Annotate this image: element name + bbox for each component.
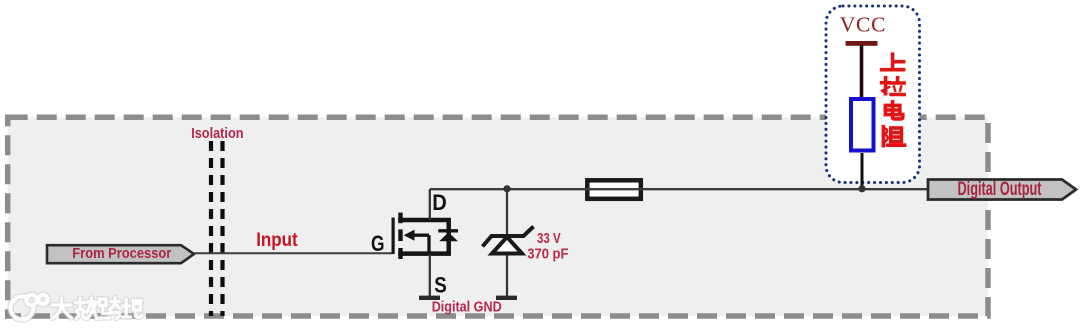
- pin label S: [434, 272, 447, 297]
- ground source: [419, 296, 440, 300]
- label Digital GND: [432, 298, 502, 315]
- svg-text:33 V: 33 V: [537, 231, 561, 247]
- label Isolation: [191, 125, 243, 142]
- svg-text:From Processor: From Processor: [72, 245, 171, 262]
- isolation barrier dashed line left: [209, 141, 213, 316]
- watermark text (大数跨境): [52, 298, 142, 319]
- label VCC: [840, 13, 887, 37]
- label Input: [256, 230, 298, 251]
- 上: [882, 54, 904, 69]
- wire zener branch: [506, 189, 508, 297]
- svg-text:Isolation: Isolation: [191, 125, 243, 142]
- pin label G: [371, 231, 385, 256]
- isolation barrier dashed line right: [220, 141, 224, 316]
- svg-text:370 pF: 370 pF: [527, 247, 568, 263]
- svg-text:D: D: [432, 190, 447, 215]
- svg-text:Input: Input: [256, 230, 298, 251]
- 阻: [883, 127, 904, 146]
- From Processor arrow tag: [47, 245, 194, 263]
- wire processor to gate: [194, 252, 393, 254]
- 电: [885, 102, 902, 119]
- wire VCC bar to resistor: [860, 45, 864, 98]
- node junction pull-up: [858, 185, 865, 192]
- body diode: [438, 229, 458, 232]
- label 33 V: [537, 231, 561, 247]
- main dashed enclosure box: [8, 117, 988, 316]
- fuse F1: [585, 180, 643, 199]
- svg-text:Digital GND: Digital GND: [432, 298, 502, 315]
- svg-text:G: G: [371, 231, 385, 256]
- svg-text:VCC: VCC: [840, 13, 887, 37]
- Digital Output arrow tag: [928, 178, 1076, 200]
- VCC rail T-bar: [846, 41, 878, 46]
- transistor Q1 N-MOSFET: [393, 213, 458, 259]
- VCC dotted callout box: [826, 6, 920, 183]
- zener diode D1 TVS: [483, 227, 534, 254]
- node junction zener: [503, 185, 510, 192]
- wire drain riser: [429, 189, 431, 220]
- svg-text:S: S: [434, 272, 447, 297]
- ground zener: [496, 296, 517, 300]
- main output net wire: [430, 188, 928, 190]
- resistor R pull-up: [851, 99, 874, 151]
- pin label D: [432, 190, 447, 215]
- label pull-up (Chinese 上拉电阻): [882, 54, 905, 146]
- 拉: [882, 78, 905, 95]
- wire source riser to ground: [429, 254, 431, 297]
- label 370 pF: [527, 247, 568, 263]
- wire resistor to output net: [861, 153, 864, 190]
- svg-text:Digital Output: Digital Output: [958, 178, 1042, 200]
